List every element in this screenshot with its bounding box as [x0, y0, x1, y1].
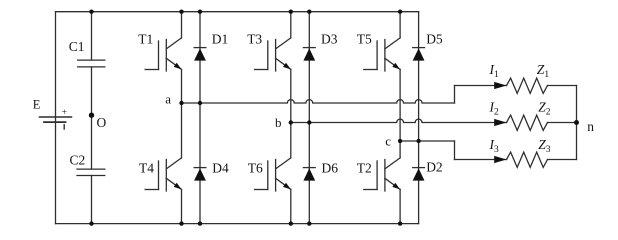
- node c junction on T leg: [398, 139, 402, 143]
- diode D1: [194, 48, 206, 61]
- capacitor C1: [78, 60, 105, 67]
- svg-text:O: O: [97, 115, 107, 130]
- wire phase c dropper: [454, 141, 456, 160]
- resistor Z1: [507, 78, 548, 93]
- svg-text:T6: T6: [248, 160, 263, 175]
- svg-text:D4: D4: [212, 160, 229, 175]
- node a junction on D leg: [198, 101, 202, 105]
- wire load branch 1 tail: [548, 85, 577, 87]
- junction top rail D leg 1: [198, 10, 202, 14]
- battery minus tick: [63, 125, 65, 129]
- wire phase a row: [182, 100, 455, 103]
- svg-text:C2: C2: [70, 152, 86, 167]
- resistor Z2: [507, 115, 548, 130]
- wire load branch 3 lead: [455, 159, 507, 161]
- wire left source branch lower: [55, 117, 57, 224]
- node c junction on D leg: [416, 139, 420, 143]
- svg-text:T5: T5: [357, 32, 372, 47]
- svg-text:T2: T2: [357, 160, 372, 175]
- current arrow I3: [494, 156, 506, 163]
- wire load branch 2 tail: [548, 122, 577, 124]
- diode D3: [303, 48, 315, 61]
- node n: [574, 120, 579, 125]
- svg-text:Z1: Z1: [537, 62, 550, 80]
- wire phase a riser: [454, 86, 456, 104]
- svg-text:T1: T1: [138, 32, 153, 47]
- diode D6: [303, 168, 315, 181]
- wire load branch 3 tail: [548, 159, 577, 161]
- wire diode branch leg 3: [418, 12, 420, 224]
- junction top rail capacitor branch: [89, 10, 93, 14]
- transistor T6: [255, 123, 291, 224]
- transistor T3: [255, 12, 291, 123]
- transistor T5: [364, 12, 400, 141]
- wire diode branch leg 1: [199, 12, 201, 224]
- svg-text:D6: D6: [322, 160, 339, 175]
- wire bottom DC rail: [56, 223, 419, 225]
- wire phase b row: [291, 119, 507, 122]
- svg-text:T4: T4: [139, 160, 154, 175]
- svg-text:b: b: [275, 115, 282, 130]
- svg-text:+: +: [62, 108, 67, 118]
- transistor T4: [145, 103, 181, 224]
- wire top DC rail: [56, 11, 419, 13]
- wire capacitor branch bottom: [91, 176, 93, 224]
- wire capacitor branch top: [91, 12, 93, 60]
- wire neutral bus: [576, 86, 578, 160]
- svg-text:Z3: Z3: [538, 137, 551, 155]
- diode D5: [413, 48, 425, 61]
- battery E: [40, 117, 72, 122]
- junction bottom rail D leg 2: [307, 221, 311, 225]
- junction top rail T leg 1: [179, 10, 183, 14]
- svg-text:C1: C1: [69, 39, 85, 54]
- svg-text:D2: D2: [426, 159, 443, 174]
- wire load branch 1 lead: [455, 85, 507, 87]
- transistor T1: [145, 12, 181, 103]
- svg-text:I2: I2: [489, 100, 500, 118]
- svg-text:n: n: [587, 119, 594, 134]
- svg-text:T3: T3: [247, 32, 262, 47]
- wire diode branch leg 2: [308, 12, 310, 224]
- junction top rail D leg 2: [307, 10, 311, 14]
- junction top rail T leg 2: [289, 10, 293, 14]
- junction bottom rail T leg 1: [179, 221, 183, 225]
- svg-text:c: c: [385, 133, 391, 148]
- svg-text:a: a: [165, 91, 171, 106]
- wire capacitor branch middle: [91, 67, 93, 169]
- diode D2: [413, 168, 425, 181]
- resistor Z3: [507, 152, 548, 167]
- transistor T2: [364, 141, 400, 224]
- node b junction on D leg: [307, 120, 311, 124]
- capacitor C2: [77, 169, 105, 175]
- diode D4: [194, 168, 206, 181]
- junction bottom rail capacitor branch: [89, 221, 93, 225]
- svg-text:D3: D3: [321, 32, 338, 47]
- junction bottom rail T leg 3: [398, 221, 402, 225]
- junction bottom rail D leg 1: [198, 221, 202, 225]
- current arrow I1: [494, 82, 506, 89]
- wire phase c row: [400, 140, 454, 142]
- node a junction on T leg: [179, 101, 183, 105]
- junction top rail T leg 3: [398, 10, 402, 14]
- svg-text:I1: I1: [489, 62, 500, 80]
- svg-text:D1: D1: [212, 32, 229, 47]
- svg-text:I3: I3: [489, 137, 500, 155]
- node O: [89, 113, 94, 118]
- junction bottom rail T leg 2: [289, 221, 293, 225]
- svg-text:Z2: Z2: [538, 100, 551, 118]
- wire left source branch upper: [55, 12, 57, 117]
- current arrow I2: [494, 119, 506, 126]
- node b junction on T leg: [289, 120, 293, 124]
- svg-text:D5: D5: [426, 32, 443, 47]
- svg-text:E: E: [33, 98, 41, 112]
